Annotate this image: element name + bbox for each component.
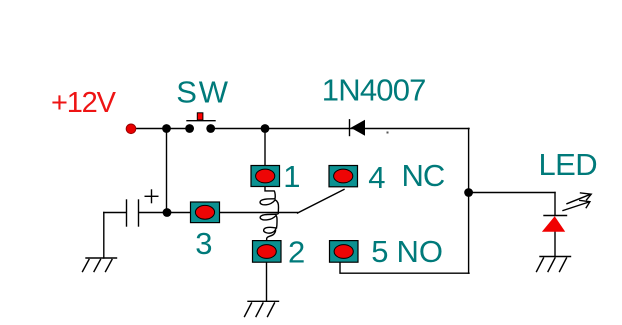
- svg-text:+12V: +12V: [51, 87, 117, 119]
- svg-text:3: 3: [195, 226, 212, 261]
- svg-text:1N4007: 1N4007: [322, 72, 426, 107]
- svg-text:LED: LED: [539, 147, 598, 182]
- svg-text:SW: SW: [176, 74, 230, 109]
- svg-text:4: 4: [368, 160, 385, 195]
- svg-text:NO: NO: [397, 234, 444, 269]
- svg-text:5: 5: [371, 234, 388, 269]
- svg-text:2: 2: [288, 235, 305, 270]
- svg-text:NC: NC: [402, 158, 445, 193]
- svg-text:1: 1: [283, 159, 300, 194]
